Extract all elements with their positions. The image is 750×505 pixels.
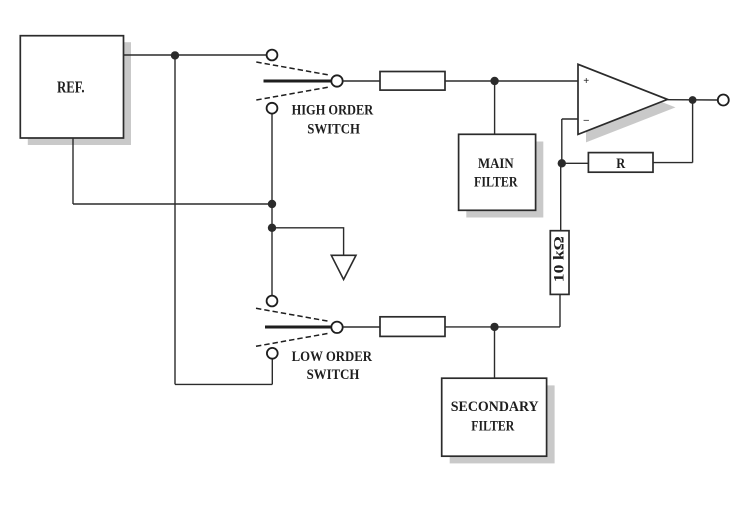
- svg-text:+: +: [583, 76, 589, 87]
- resistor 10k: [550, 231, 569, 295]
- low order switch pole contact: [331, 322, 342, 333]
- wire J1 down left rail: [174, 55, 176, 384]
- wire REF right to high switch top throw: [124, 54, 267, 56]
- svg-text:R: R: [616, 156, 625, 172]
- REF. box shadow: [28, 42, 131, 145]
- svg-text:LOW ORDER: LOW ORDER: [292, 349, 373, 365]
- wire J5 down to 10k resistor: [560, 163, 562, 230]
- wire high switch bottom throw down to J3: [271, 114, 273, 228]
- op-amp U2 shadow: [586, 72, 676, 142]
- output terminal: [718, 95, 729, 106]
- node junction J5: [558, 159, 566, 167]
- wire minus input down to J5: [561, 119, 563, 163]
- REF. box U1: [20, 36, 123, 138]
- low order switch upper dashed travel: [256, 308, 330, 321]
- node junction J7: [490, 323, 498, 331]
- wire op-amp output: [668, 99, 718, 101]
- svg-text:–: –: [583, 115, 590, 126]
- high order switch arm: [264, 80, 332, 83]
- wire R2 to low rail: [445, 326, 495, 328]
- wire J3 down to low switch top throw: [271, 228, 273, 296]
- wire bottom rail to low switch bottom throw: [175, 383, 272, 385]
- high order switch pole contact: [331, 75, 342, 86]
- svg-text:SWITCH: SWITCH: [307, 367, 360, 383]
- low order switch arm: [265, 326, 331, 329]
- svg-text:MAIN: MAIN: [478, 156, 514, 172]
- high order switch top throw contact: [267, 50, 278, 61]
- high order switch lower dashed travel: [256, 87, 330, 100]
- svg-text:REF.: REF.: [57, 78, 85, 97]
- svg-text:10 kΩ: 10 kΩ: [552, 236, 568, 282]
- wire high pole to resistor R1: [343, 80, 380, 82]
- SECONDARY FILTER box shadow: [450, 385, 555, 463]
- wire low rail: [495, 326, 561, 328]
- wire REF bottom down: [72, 138, 74, 204]
- wire 10k down to low rail: [559, 294, 561, 327]
- wire J3 to ground stub: [272, 228, 344, 255]
- high order switch upper dashed travel: [256, 62, 330, 75]
- svg-text:FILTER: FILTER: [471, 419, 514, 435]
- MAIN FILTER box shadow: [466, 142, 543, 218]
- wire output rail up: [692, 100, 694, 163]
- node junction J4: [490, 77, 498, 85]
- wire REF bottom across to center rail: [73, 203, 272, 205]
- low order switch top throw contact: [267, 296, 278, 307]
- svg-text:HIGH ORDER: HIGH ORDER: [292, 103, 374, 119]
- wire up to low switch bottom throw: [271, 359, 273, 385]
- wire J4 down to main filter: [494, 81, 496, 134]
- svg-text:SWITCH: SWITCH: [307, 122, 360, 138]
- feedback resistor R: [588, 153, 653, 173]
- resistor R1: [380, 72, 445, 91]
- node junction J1: [171, 51, 179, 59]
- node junction J3: [268, 224, 276, 232]
- wire low pole to resistor R2: [343, 326, 380, 328]
- low order switch lower dashed travel: [256, 333, 330, 346]
- svg-text:SECONDARY: SECONDARY: [451, 399, 539, 415]
- SECONDARY FILTER box: [442, 378, 547, 456]
- ground: [331, 255, 356, 279]
- wire J5 to feedback resistor R: [562, 162, 589, 164]
- wire R to output rail: [653, 162, 693, 164]
- wire J7 down to secondary filter: [494, 327, 496, 378]
- resistor R2: [380, 317, 445, 337]
- wire R1 to op-amp plus input: [445, 80, 578, 82]
- high order switch bottom throw contact: [267, 103, 278, 114]
- wire minus input stub: [562, 118, 578, 120]
- svg-text:FILTER: FILTER: [474, 175, 518, 191]
- node junction J2: [268, 200, 276, 208]
- low order switch bottom throw contact: [267, 348, 278, 359]
- MAIN FILTER box: [459, 134, 536, 210]
- op-amp U2: [578, 64, 668, 134]
- node junction J6: [689, 96, 697, 104]
